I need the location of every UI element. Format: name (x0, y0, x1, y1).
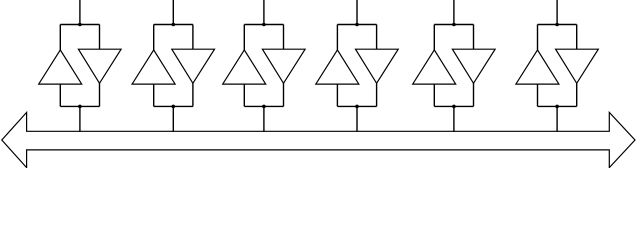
wire: top horizontal wire of cell 6 (538, 24, 577, 26)
buffer (downward tri-state) of cell 1 (78, 49, 121, 83)
buffer (downward tri-state) of cell 5 (452, 49, 495, 83)
wire: left upper vertical of cell 3 (243, 25, 245, 50)
wire: top horizontal wire of cell 3 (244, 24, 283, 26)
wire: left lower vertical of cell 6 (537, 84, 539, 106)
wire: top stub of cell 5 (453, 0, 455, 25)
node: top junction dot of cell 4 (355, 23, 359, 27)
wire: bottom horizontal wire of cell 2 (154, 105, 193, 107)
wire: bottom horizontal wire of cell 1 (60, 105, 99, 107)
wire: right lower vertical of cell 4 (376, 83, 378, 106)
wire: bottom horizontal wire of cell 3 (244, 105, 283, 107)
wire: top stub of cell 3 (263, 0, 265, 25)
wire: left lower vertical of cell 4 (336, 84, 338, 106)
node: top junction dot of cell 2 (172, 23, 176, 27)
buffer (upward tri-state) of cell 2 (132, 50, 175, 84)
buffer (upward tri-state) of cell 4 (316, 50, 359, 84)
wire: top horizontal wire of cell 1 (60, 24, 99, 26)
buffer (downward tri-state) of cell 4 (356, 49, 399, 83)
buffer (upward tri-state) of cell 1 (39, 50, 82, 84)
wire: top stub of cell 1 (79, 0, 81, 25)
wire: left lower vertical of cell 3 (243, 84, 245, 106)
wire: right upper vertical of cell 6 (576, 25, 578, 50)
wire: top stub of cell 2 (172, 0, 174, 25)
buffer (downward tri-state) of cell 2 (172, 49, 215, 83)
wire: right lower vertical of cell 1 (99, 83, 101, 106)
wire: top stub of cell 6 (556, 0, 558, 25)
wire: right upper vertical of cell 3 (283, 25, 285, 50)
wire: top horizontal wire of cell 4 (337, 24, 376, 26)
wire: bottom stub of cell 5 to bus (453, 106, 455, 131)
wire: bottom stub of cell 4 to bus (356, 106, 358, 131)
wire: top stub of cell 4 (356, 0, 358, 25)
node: top junction dot of cell 5 (452, 23, 456, 27)
wire: left upper vertical of cell 5 (433, 25, 435, 50)
wire: left lower vertical of cell 1 (59, 84, 61, 106)
wire: bottom horizontal wire of cell 6 (538, 105, 577, 107)
buffer (downward tri-state) of cell 6 (556, 49, 599, 83)
wire: bottom stub of cell 2 to bus (172, 106, 174, 131)
wire: left upper vertical of cell 4 (336, 25, 338, 50)
node: bottom junction dot of cell 4 (355, 105, 359, 109)
buffer (upward tri-state) of cell 6 (516, 50, 559, 84)
node: top junction dot of cell 1 (78, 23, 82, 27)
wire: right lower vertical of cell 2 (192, 83, 194, 106)
wire: bottom stub of cell 3 to bus (263, 106, 265, 131)
wire: right upper vertical of cell 1 (99, 25, 101, 50)
node: bottom junction dot of cell 2 (172, 105, 176, 109)
wire: top horizontal wire of cell 2 (154, 24, 193, 26)
wire: right upper vertical of cell 5 (473, 25, 475, 50)
wire: right lower vertical of cell 3 (283, 83, 285, 106)
node: bottom junction dot of cell 5 (452, 105, 456, 109)
node: top junction dot of cell 3 (262, 23, 266, 27)
wire: bottom horizontal wire of cell 4 (337, 105, 376, 107)
wire: left lower vertical of cell 2 (153, 84, 155, 106)
wire: bottom stub of cell 1 to bus (79, 106, 81, 131)
node: top junction dot of cell 6 (555, 23, 559, 27)
wire: left upper vertical of cell 6 (537, 25, 539, 50)
wire: right upper vertical of cell 2 (192, 25, 194, 50)
buffer (downward tri-state) of cell 3 (262, 49, 305, 83)
buffer (upward tri-state) of cell 3 (223, 50, 266, 84)
bus: bidirectional data bus (double-headed arrow) (2, 112, 635, 167)
node: bottom junction dot of cell 1 (78, 105, 82, 109)
wire: left upper vertical of cell 1 (59, 25, 61, 50)
wire: right lower vertical of cell 6 (576, 83, 578, 106)
wire: top horizontal wire of cell 5 (434, 24, 473, 26)
node: bottom junction dot of cell 3 (262, 105, 266, 109)
wire: bottom horizontal wire of cell 5 (434, 105, 473, 107)
wire: left lower vertical of cell 5 (433, 84, 435, 106)
wire: right upper vertical of cell 4 (376, 25, 378, 50)
node: bottom junction dot of cell 6 (555, 105, 559, 109)
wire: bottom stub of cell 6 to bus (556, 106, 558, 131)
wire: left upper vertical of cell 2 (153, 25, 155, 50)
wire: right lower vertical of cell 5 (473, 83, 475, 106)
buffer (upward tri-state) of cell 5 (413, 50, 456, 84)
